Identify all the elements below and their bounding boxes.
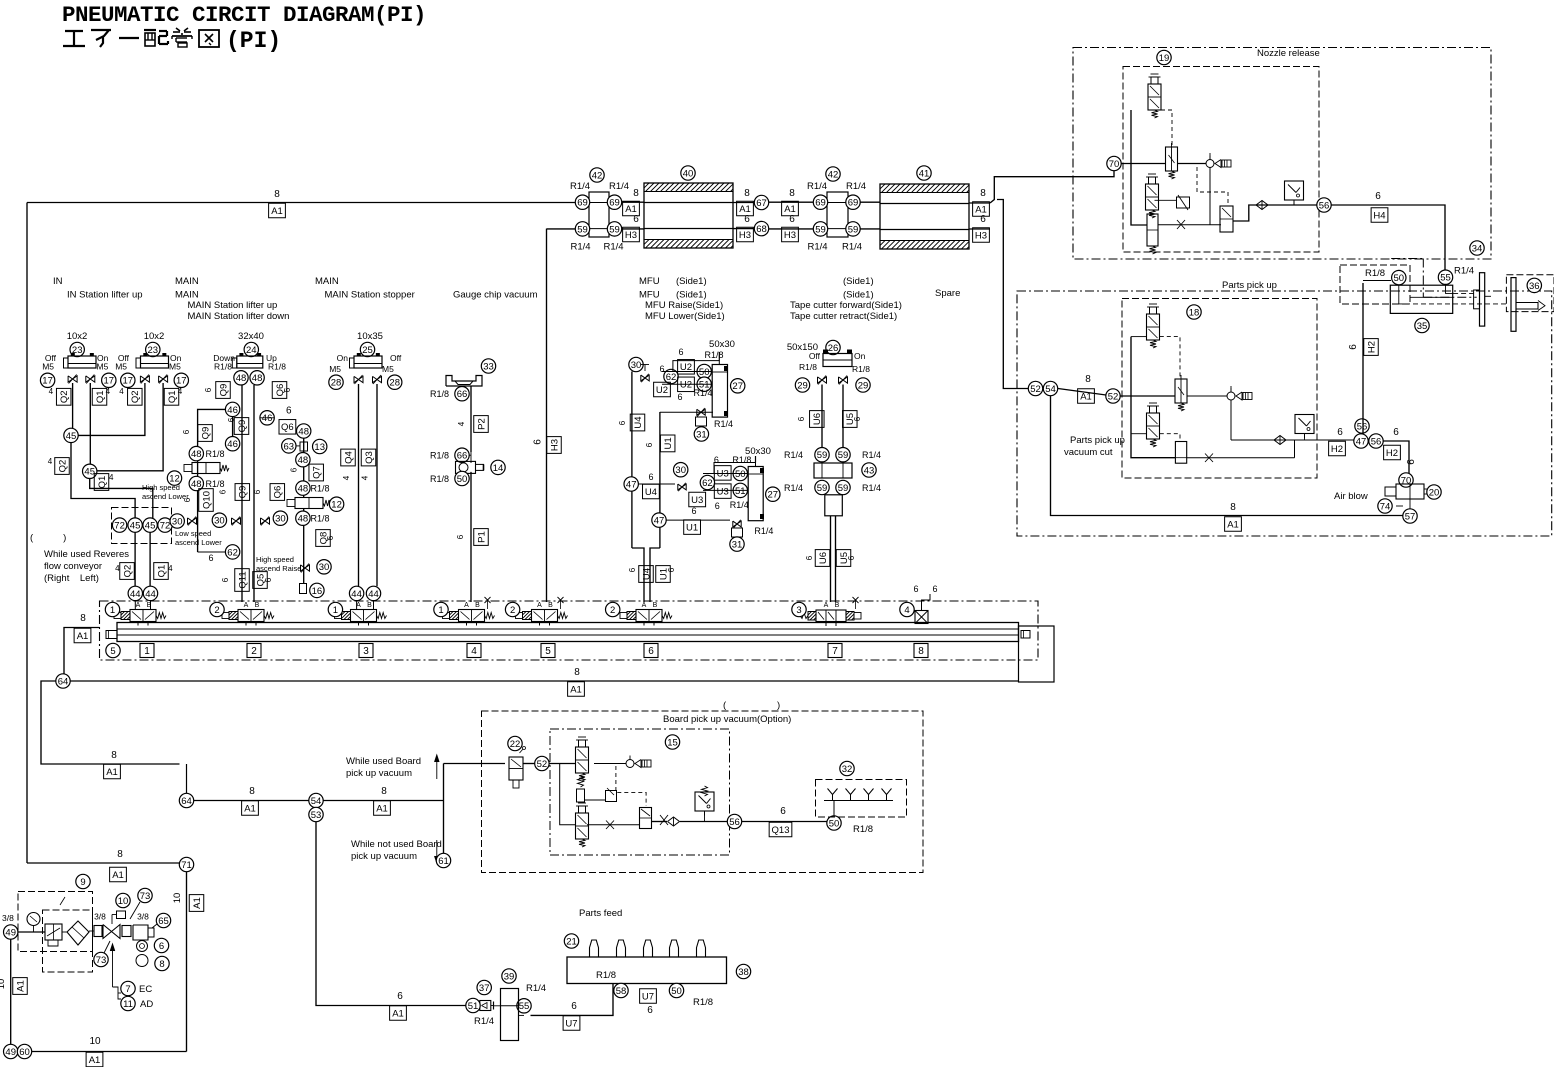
svg-text:52: 52 bbox=[537, 759, 548, 770]
svg-text:H2: H2 bbox=[1366, 341, 1377, 353]
svg-text:U1: U1 bbox=[663, 437, 674, 449]
svg-text:10: 10 bbox=[172, 893, 183, 904]
svg-text:R1/4: R1/4 bbox=[862, 483, 881, 493]
wires 10x35 down bbox=[358, 384, 360, 586]
svg-text:R1/8: R1/8 bbox=[799, 362, 817, 372]
svg-text:A1: A1 bbox=[1080, 391, 1092, 402]
elbow 65 bbox=[133, 925, 148, 940]
svg-text:Q7: Q7 bbox=[312, 466, 323, 479]
wire mfu left rail bbox=[631, 372, 633, 549]
node 71 bbox=[179, 857, 193, 871]
svg-text:IN Station lifter up: IN Station lifter up bbox=[67, 290, 143, 301]
svg-text:58: 58 bbox=[616, 986, 627, 997]
wire 45mid down bbox=[90, 478, 153, 518]
svg-text:MAIN: MAIN bbox=[315, 276, 339, 287]
svg-text:21: 21 bbox=[566, 936, 577, 947]
long pilot dashed line bbox=[1397, 303, 1506, 305]
svg-text:6: 6 bbox=[159, 941, 164, 952]
station 8 plug box bbox=[915, 611, 928, 624]
wire in2 left to 45a bbox=[78, 383, 145, 435]
svg-text:MAIN Station stopper: MAIN Station stopper bbox=[325, 290, 415, 301]
svg-text:Q1: Q1 bbox=[156, 565, 167, 578]
label Q1 low bbox=[154, 563, 169, 580]
svg-text:44: 44 bbox=[130, 589, 141, 600]
svg-text:24: 24 bbox=[246, 345, 257, 356]
svg-text:70: 70 bbox=[1109, 159, 1120, 170]
node 48 e chain right bbox=[296, 453, 310, 467]
svg-text:4: 4 bbox=[904, 605, 909, 616]
node 73 upper bbox=[138, 888, 152, 902]
svg-text:4: 4 bbox=[178, 387, 183, 396]
check diamond parts bbox=[1274, 436, 1286, 445]
svg-text:6: 6 bbox=[618, 420, 627, 425]
comp 16 bbox=[300, 584, 307, 594]
svg-text:6: 6 bbox=[744, 214, 750, 225]
svg-text:6: 6 bbox=[648, 646, 654, 657]
svg-text:71: 71 bbox=[181, 860, 192, 871]
flow control 30a bbox=[170, 514, 184, 528]
wire into valve 22 bbox=[444, 763, 506, 765]
svg-text:44: 44 bbox=[368, 589, 379, 600]
svg-text:6: 6 bbox=[289, 467, 298, 472]
svg-text:59: 59 bbox=[848, 224, 859, 235]
svg-text:High speed: High speed bbox=[142, 483, 180, 492]
shutoff valve bowtie bbox=[103, 925, 120, 939]
svg-text:6: 6 bbox=[789, 214, 795, 225]
wire left vertical bus A1 bbox=[26, 203, 28, 864]
svg-text:17: 17 bbox=[176, 376, 187, 387]
svg-text:48: 48 bbox=[298, 455, 309, 466]
svg-text:42: 42 bbox=[828, 169, 839, 180]
svg-text:17: 17 bbox=[123, 376, 134, 387]
svg-text:Low speed: Low speed bbox=[175, 529, 211, 538]
pressure switch sq bbox=[1285, 181, 1304, 200]
flow control 30d bbox=[301, 565, 310, 571]
svg-text:73: 73 bbox=[140, 891, 151, 902]
svg-text:29: 29 bbox=[858, 380, 869, 391]
svg-text:B: B bbox=[548, 602, 553, 609]
solenoid valve (nozzle release pilot) bbox=[1148, 84, 1161, 110]
wire H3 vertical to manifold station5 bbox=[546, 229, 548, 602]
svg-text:57: 57 bbox=[1405, 511, 1416, 522]
svg-text:32: 32 bbox=[842, 764, 853, 775]
svg-text:(Right Left): (Right Left) bbox=[44, 573, 99, 584]
svg-text:30: 30 bbox=[675, 465, 686, 476]
wire 71 down bbox=[186, 872, 188, 1052]
wire bottom valve to riser with star bbox=[1187, 457, 1295, 459]
svg-text:(Side1): (Side1) bbox=[843, 290, 874, 301]
node 50 e bbox=[455, 471, 469, 485]
svg-text:): ) bbox=[63, 533, 66, 544]
node 64 lower bbox=[179, 793, 193, 807]
node 12 a bbox=[167, 471, 181, 485]
node 55 top bbox=[1438, 270, 1452, 284]
svg-text:R1/8: R1/8 bbox=[693, 997, 713, 1008]
vacuum generator 14 bbox=[456, 461, 476, 473]
svg-text:R1/8: R1/8 bbox=[205, 479, 224, 489]
svg-text:A1: A1 bbox=[77, 631, 89, 642]
svg-text:20: 20 bbox=[1429, 487, 1440, 498]
svg-text:8: 8 bbox=[744, 188, 750, 199]
svg-text:(Side1): (Side1) bbox=[676, 290, 707, 301]
regulator bbox=[45, 924, 62, 940]
svg-text:A1: A1 bbox=[106, 767, 118, 778]
svg-text:34: 34 bbox=[1472, 243, 1483, 254]
svg-text:55: 55 bbox=[1440, 273, 1451, 284]
svg-text:Gauge chip vacuum: Gauge chip vacuum bbox=[453, 290, 538, 301]
svg-text:30: 30 bbox=[275, 514, 286, 525]
wire 67-42b bbox=[769, 201, 814, 203]
svg-text:8: 8 bbox=[249, 786, 255, 797]
svg-text:53: 53 bbox=[311, 810, 322, 821]
nozzle block 35 bbox=[1390, 285, 1452, 313]
wire to nozzle release node 70 bbox=[990, 171, 1114, 203]
wire ladder left bbox=[198, 409, 226, 552]
svg-text:52: 52 bbox=[1108, 391, 1119, 402]
svg-text:A1: A1 bbox=[376, 803, 388, 814]
svg-text:On: On bbox=[337, 353, 349, 363]
wires U3 pair to cylinder bbox=[703, 473, 748, 475]
flow controls 29 bbox=[818, 377, 827, 383]
hand valve 12a bbox=[192, 463, 220, 474]
svg-text:U4: U4 bbox=[641, 568, 652, 580]
svg-text:B: B bbox=[147, 602, 152, 609]
svg-text:vacuum cut: vacuum cut bbox=[1064, 447, 1113, 458]
svg-text:U7: U7 bbox=[642, 991, 654, 1002]
svg-text:8: 8 bbox=[574, 667, 580, 678]
svg-text:M5: M5 bbox=[382, 364, 394, 374]
svg-text:8: 8 bbox=[381, 786, 387, 797]
svg-text:2: 2 bbox=[251, 646, 257, 657]
svg-text:M5: M5 bbox=[329, 364, 341, 374]
valve station at x=544.5 bbox=[532, 610, 558, 622]
valve body lower2 bbox=[1147, 214, 1158, 246]
svg-text:pick up vacuum: pick up vacuum bbox=[346, 768, 412, 779]
wire to nozzles bbox=[742, 821, 827, 823]
svg-text:R1/4: R1/4 bbox=[693, 388, 712, 398]
svg-text:Q9: Q9 bbox=[200, 427, 211, 440]
svg-text:Spare: Spare bbox=[935, 288, 960, 299]
svg-text:1: 1 bbox=[110, 605, 115, 616]
svg-text:6: 6 bbox=[571, 1001, 577, 1012]
wire A1 long return under manifold bbox=[70, 680, 1019, 682]
svg-text:B: B bbox=[835, 602, 840, 609]
svg-text:26: 26 bbox=[828, 343, 839, 354]
svg-text:A: A bbox=[464, 602, 469, 609]
svg-text:MFU Lower(Side1): MFU Lower(Side1) bbox=[645, 311, 725, 322]
dashed box reverse conveyor bbox=[112, 508, 172, 544]
svg-text:A1: A1 bbox=[244, 803, 256, 814]
svg-text:44: 44 bbox=[145, 589, 156, 600]
node 67 bbox=[754, 195, 768, 209]
wire 54 to 52b bbox=[1058, 389, 1106, 396]
manifold right plug bbox=[1021, 631, 1030, 639]
node 45 mid bbox=[83, 464, 97, 478]
rod of 50x30 lower bbox=[755, 456, 757, 463]
svg-text:50: 50 bbox=[671, 986, 682, 997]
nozzle release outer dash-dot box bbox=[1073, 48, 1491, 260]
node 56/47 pair bbox=[1355, 419, 1369, 433]
pilot dashed line bbox=[1161, 110, 1172, 147]
inner dashed box item 18 bbox=[1122, 299, 1317, 479]
wire 32x40 left down bbox=[241, 385, 243, 602]
node 68 bbox=[754, 221, 768, 235]
svg-text:PNEUMATIC CIRCIT DIAGRAM(PI): PNEUMATIC CIRCIT DIAGRAM(PI) bbox=[62, 2, 426, 28]
arrow up to valve bbox=[112, 944, 114, 987]
svg-text:6: 6 bbox=[628, 567, 637, 572]
flow control below 50x30 upper bbox=[697, 409, 705, 415]
svg-text:56: 56 bbox=[729, 817, 740, 828]
svg-text:U3: U3 bbox=[717, 487, 729, 498]
svg-text:EC: EC bbox=[139, 984, 152, 995]
svg-text:MAIN: MAIN bbox=[175, 276, 199, 287]
node 62 mfu-b bbox=[700, 475, 714, 489]
svg-text:6: 6 bbox=[647, 1005, 653, 1016]
label Q1 in2 bbox=[164, 388, 179, 405]
node 28 pair bbox=[329, 375, 343, 389]
svg-text:U3: U3 bbox=[691, 495, 703, 506]
svg-text:45: 45 bbox=[66, 431, 77, 442]
flow control w/ dashes bbox=[1177, 197, 1190, 208]
svg-text:33: 33 bbox=[483, 361, 494, 372]
wire 54 to board riser bbox=[323, 800, 444, 802]
svg-text:40: 40 bbox=[683, 168, 694, 179]
svg-text:H2: H2 bbox=[1331, 444, 1343, 455]
node 58 + U7 bbox=[614, 983, 628, 997]
svg-text:Air blow: Air blow bbox=[1334, 491, 1368, 502]
fitting a bbox=[94, 926, 102, 937]
node 17 in2 bbox=[121, 373, 135, 387]
svg-text:13: 13 bbox=[314, 442, 325, 453]
svg-text:59: 59 bbox=[838, 450, 849, 461]
wire 70 to regulator bbox=[1121, 163, 1166, 165]
svg-text:While used Board: While used Board bbox=[346, 756, 421, 767]
svg-text:Board pick up vacuum(Option): Board pick up vacuum(Option) bbox=[663, 714, 791, 725]
flow control 30c bbox=[261, 518, 270, 524]
wires mfu to manifold st6 bbox=[632, 548, 644, 602]
svg-text:52: 52 bbox=[1030, 384, 1041, 395]
node 64 upper bbox=[56, 674, 70, 688]
svg-text:R1/8: R1/8 bbox=[596, 970, 616, 981]
svg-text:30: 30 bbox=[172, 516, 183, 527]
svg-text:39: 39 bbox=[504, 971, 515, 982]
svg-text:R1/8: R1/8 bbox=[430, 451, 449, 461]
node 48 pair top bbox=[234, 371, 248, 385]
svg-text:12: 12 bbox=[331, 500, 342, 511]
svg-text:U6: U6 bbox=[812, 413, 823, 425]
node 46 c right bbox=[260, 411, 274, 425]
labels Q4 Q3 bbox=[341, 449, 356, 466]
left rail bbox=[1131, 337, 1175, 458]
wire far-left 10 line bbox=[10, 939, 12, 1044]
svg-text:R1/4: R1/4 bbox=[784, 483, 803, 493]
svg-text:64: 64 bbox=[58, 676, 69, 687]
svg-text:4: 4 bbox=[49, 387, 54, 396]
valve bottom bbox=[1175, 442, 1186, 464]
svg-text:B: B bbox=[653, 602, 658, 609]
svg-text:H4: H4 bbox=[1373, 210, 1385, 221]
svg-text:R1/4: R1/4 bbox=[570, 181, 590, 192]
valve station at x=143 bbox=[130, 610, 156, 622]
svg-text:6: 6 bbox=[326, 535, 335, 540]
check valve bbox=[1256, 201, 1268, 210]
svg-text:8: 8 bbox=[633, 188, 639, 199]
svg-text:6: 6 bbox=[980, 214, 986, 225]
svg-text:6: 6 bbox=[805, 555, 814, 560]
node 56 c bbox=[727, 814, 741, 828]
valve station at x=363.5 bbox=[351, 610, 377, 622]
svg-text:(PI): (PI) bbox=[226, 28, 281, 54]
svg-text:47: 47 bbox=[1356, 436, 1367, 447]
svg-text:50: 50 bbox=[1394, 273, 1405, 284]
svg-text:74: 74 bbox=[1380, 501, 1391, 512]
svg-text:U1: U1 bbox=[686, 523, 698, 534]
svg-text:38: 38 bbox=[738, 967, 749, 978]
board left rail bbox=[560, 764, 576, 825]
wire 47a to flow 30 bbox=[638, 483, 675, 485]
svg-text:6: 6 bbox=[1393, 427, 1399, 438]
svg-text:6: 6 bbox=[1348, 344, 1359, 350]
node 47 a bbox=[624, 477, 638, 491]
svg-text:Off: Off bbox=[809, 351, 821, 361]
drain circles bbox=[137, 941, 148, 952]
board bleed bbox=[626, 760, 634, 768]
svg-text:8: 8 bbox=[117, 849, 123, 860]
svg-text:6: 6 bbox=[1375, 191, 1381, 202]
svg-text:6: 6 bbox=[797, 416, 806, 421]
svg-text:P1: P1 bbox=[476, 531, 487, 543]
solenoid valve top bbox=[1147, 314, 1160, 340]
svg-text:50: 50 bbox=[699, 367, 710, 378]
svg-text:M5: M5 bbox=[115, 362, 127, 372]
svg-text:68: 68 bbox=[756, 224, 767, 235]
valve station at x=649 bbox=[636, 610, 662, 622]
node 30 mfu-b + flow bbox=[674, 463, 688, 477]
svg-text:8: 8 bbox=[159, 959, 164, 970]
svg-text:10x35: 10x35 bbox=[357, 331, 383, 342]
node 17 in1 bbox=[40, 373, 54, 387]
svg-text:59: 59 bbox=[609, 224, 620, 235]
parts feed manifold bbox=[567, 957, 727, 984]
svg-text:51: 51 bbox=[735, 486, 746, 497]
svg-text:4: 4 bbox=[471, 646, 477, 657]
svg-text:15: 15 bbox=[667, 737, 678, 748]
node 66 b bbox=[455, 448, 469, 462]
node 62 main bbox=[225, 545, 239, 559]
wire mfu second rail bbox=[659, 412, 661, 548]
label Q6 a bbox=[272, 382, 287, 399]
svg-text:6: 6 bbox=[1406, 459, 1417, 465]
svg-text:R1/8: R1/8 bbox=[430, 389, 449, 399]
node 69 left pair bbox=[575, 195, 589, 209]
title text line 2 (Japanese, drawn as strokes) bbox=[65, 30, 83, 32]
svg-text:4: 4 bbox=[168, 564, 173, 573]
svg-text:R1/4: R1/4 bbox=[570, 242, 590, 253]
svg-text:28: 28 bbox=[331, 378, 342, 389]
svg-text:A: A bbox=[136, 602, 141, 609]
inner dash-dot box 15 bbox=[550, 729, 730, 855]
svg-text:72: 72 bbox=[114, 521, 125, 532]
svg-text:11: 11 bbox=[123, 999, 133, 1010]
svg-text:36: 36 bbox=[1529, 281, 1540, 292]
nodes 59 lower bbox=[815, 480, 829, 494]
air blow valve bbox=[1399, 473, 1413, 487]
svg-text:A: A bbox=[537, 602, 542, 609]
nodes 72 45 45 72 bbox=[112, 518, 126, 532]
label Q1 in1 bbox=[92, 388, 107, 405]
wire 56 to H4 corner bbox=[1331, 205, 1445, 271]
svg-text:59: 59 bbox=[577, 224, 588, 235]
svg-text:50: 50 bbox=[829, 818, 840, 829]
flow control 31b bbox=[733, 521, 741, 527]
node 48 c bbox=[189, 446, 203, 460]
svg-text:B: B bbox=[475, 602, 480, 609]
wires 50x150 down bbox=[821, 385, 823, 448]
svg-text:MAIN Station lifter down: MAIN Station lifter down bbox=[188, 311, 290, 322]
wire output parts pick up bbox=[1230, 400, 1232, 440]
node 31 a bbox=[694, 427, 708, 441]
pilot dashed from 55 to T-bar bbox=[1453, 292, 1474, 294]
svg-text:4: 4 bbox=[48, 457, 53, 466]
svg-text:8: 8 bbox=[274, 189, 280, 200]
svg-text:Q10: Q10 bbox=[201, 491, 212, 509]
svg-text:R1/4: R1/4 bbox=[842, 242, 862, 253]
svg-text:4: 4 bbox=[119, 387, 124, 396]
svg-text:U2: U2 bbox=[656, 385, 668, 396]
svg-text:73: 73 bbox=[96, 955, 107, 966]
nozzle manifold 32 bbox=[816, 780, 907, 818]
svg-text:55: 55 bbox=[519, 1001, 530, 1012]
wire 42a to cylinder40 bbox=[622, 201, 645, 203]
suction bracket 33 bbox=[446, 376, 482, 387]
svg-text:30: 30 bbox=[214, 516, 225, 527]
svg-text:1: 1 bbox=[144, 646, 150, 657]
board pressure switch bbox=[695, 792, 714, 811]
svg-text:45: 45 bbox=[130, 521, 141, 532]
wire 45a down bbox=[71, 443, 135, 518]
svg-text:R1/4: R1/4 bbox=[862, 450, 881, 460]
solenoid valve lower bbox=[1147, 413, 1160, 439]
wire 22 to 52c bbox=[523, 763, 535, 765]
node 50 top bbox=[1392, 270, 1406, 284]
node 5 circle bbox=[106, 643, 120, 657]
check fitting 51 bbox=[480, 1001, 491, 1011]
svg-text:Q9: Q9 bbox=[238, 486, 249, 499]
svg-text:6: 6 bbox=[1337, 427, 1343, 438]
node 37 bbox=[477, 980, 491, 994]
svg-text:R1/8: R1/8 bbox=[1365, 268, 1385, 279]
wire A1 bottom of parts pickup bbox=[1051, 396, 1404, 516]
board lower solenoid bbox=[576, 813, 589, 839]
svg-text:MFU: MFU bbox=[639, 276, 660, 287]
wire down to parts pickup node 52 bbox=[997, 200, 1029, 389]
svg-text:6: 6 bbox=[182, 429, 191, 434]
svg-text:46: 46 bbox=[227, 405, 238, 416]
output wire to node 56 bbox=[1233, 205, 1317, 221]
wire 64a branch down bbox=[41, 681, 180, 764]
pilot dashed bbox=[1160, 337, 1180, 378]
svg-text:46: 46 bbox=[262, 413, 273, 424]
wire A1 main top bbox=[27, 202, 576, 204]
svg-text:Q1: Q1 bbox=[97, 476, 108, 489]
svg-text:66: 66 bbox=[457, 451, 468, 462]
T-bar symbol a bbox=[1480, 273, 1485, 326]
node 55 b bbox=[517, 999, 531, 1013]
svg-text:8: 8 bbox=[789, 188, 795, 199]
board small box bbox=[606, 791, 617, 802]
label Q8 bbox=[316, 530, 331, 547]
svg-text:59: 59 bbox=[838, 483, 849, 494]
